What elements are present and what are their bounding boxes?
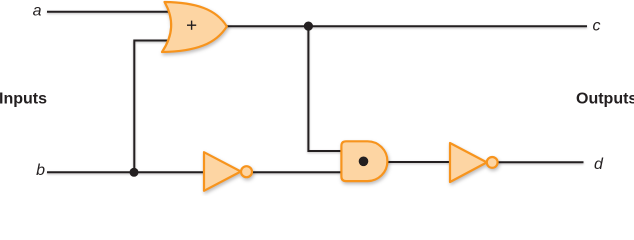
wire from input b to NOT gate <box>47 171 205 173</box>
svg-text:d: d <box>594 156 604 173</box>
AND gate U2 <box>341 141 387 181</box>
wire from OR gate output to output c <box>226 25 587 27</box>
junction node on OR output wire <box>304 22 313 31</box>
wire from second NOT gate bubble to output d <box>497 161 583 163</box>
NOT gate U4 bubble <box>487 157 498 168</box>
svg-text:Inputs: Inputs <box>0 91 47 108</box>
wire from NOT gate bubble to AND gate bottom input <box>252 171 343 173</box>
NOT gate U3 (inverter on b line) <box>204 152 241 191</box>
AND gate dot symbol <box>359 157 369 167</box>
NOT gate U4 (inverter after AND) <box>450 143 487 182</box>
wire branch from node b up to OR gate second input <box>134 41 168 173</box>
wire from input a to OR gate <box>47 11 169 13</box>
OR gate plus symbol <box>187 21 196 30</box>
wire from AND gate output to second NOT gate <box>387 161 451 163</box>
wire branch from node at OR output down to AND gate top input <box>308 26 342 151</box>
NOT gate U3 bubble <box>241 166 252 177</box>
svg-text:c: c <box>593 17 601 34</box>
junction node on wire b <box>130 168 139 177</box>
svg-text:a: a <box>33 3 42 20</box>
svg-text:Outputs: Outputs <box>576 90 634 107</box>
OR gate U1 <box>162 2 227 52</box>
svg-text:b: b <box>36 162 45 179</box>
